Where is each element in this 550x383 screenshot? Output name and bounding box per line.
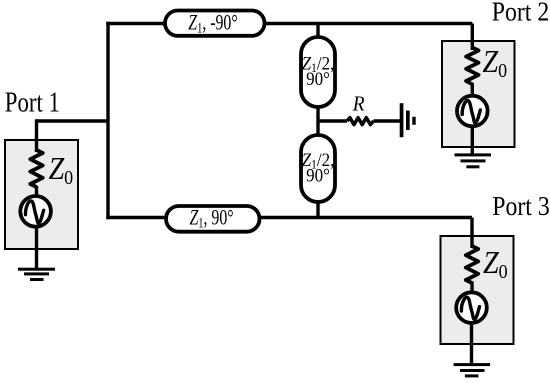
svg-text:R: R <box>352 92 365 115</box>
svg-text:Port 1: Port 1 <box>5 86 60 118</box>
wire: port 1 vertical into box <box>35 119 38 152</box>
wire: stub column vertical <box>316 24 319 218</box>
stub line Z1/2,90 upper pill <box>301 37 335 107</box>
wire: bottom branch horizontal <box>106 216 472 219</box>
transmission line Z1,-90 pill <box>165 11 265 36</box>
stub line Z1/2,90 lower pill <box>301 135 335 202</box>
sine wave port 1 <box>25 201 43 223</box>
svg-text:90°: 90° <box>306 165 330 186</box>
wire: resistor to ground lead <box>374 119 401 122</box>
wire: source to ground port 3 <box>470 322 473 363</box>
ground port 1 <box>18 268 55 281</box>
ground port 3 <box>454 363 491 377</box>
wire: resistor to source port 2 <box>471 83 474 97</box>
ground (rotated) for resistor R <box>400 103 416 137</box>
resistor R zigzag <box>347 118 374 125</box>
wire: source to ground port 2 <box>471 126 474 154</box>
sine wave port 2 <box>462 101 480 123</box>
source circle port 3 <box>456 292 487 323</box>
port 3 source box <box>441 236 514 344</box>
resistor Z0 port 3 <box>466 246 478 283</box>
wire: resistor to source port 3 <box>470 282 473 295</box>
source circle port 2 <box>457 96 488 127</box>
resistor Z0 port 1 <box>30 150 42 187</box>
transmission line Z1,90 pill <box>166 206 260 232</box>
sine wave port 3 <box>461 297 479 319</box>
svg-text:Port 3: Port 3 <box>492 190 549 221</box>
svg-text:Z1, 90°: Z1, 90° <box>190 206 234 231</box>
svg-text:Port 2: Port 2 <box>492 0 549 27</box>
wire: source to ground port 1 <box>35 226 38 268</box>
wire: port 2 vertical into box <box>471 24 474 51</box>
wire: input vertical bus <box>106 22 109 219</box>
svg-text:Z1, -90°: Z1, -90° <box>188 11 237 36</box>
wire: isolation resistor lead <box>318 119 347 122</box>
wire: port 1 horizontal lead <box>37 119 109 122</box>
wire: resistor to source port 1 <box>35 186 38 197</box>
svg-text:90°: 90° <box>306 69 330 90</box>
source circle port 1 <box>20 196 51 227</box>
wire: port 3 vertical into box <box>470 218 473 249</box>
wire: top branch horizontal <box>106 22 472 25</box>
port 1 source box <box>5 140 78 249</box>
ground port 2 <box>455 153 492 168</box>
port 2 source box <box>442 41 515 147</box>
resistor Z0 port 2 <box>466 48 478 85</box>
